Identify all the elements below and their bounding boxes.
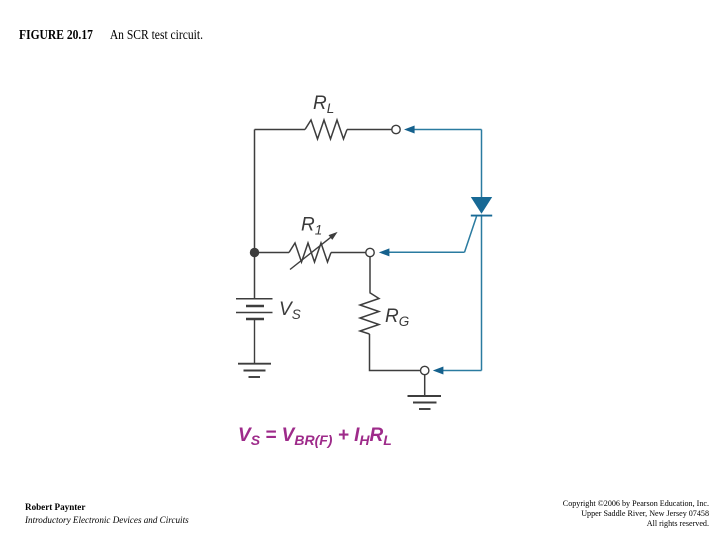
wire: teal probe lead, top horizontal xyxy=(413,129,482,131)
figure caption xyxy=(19,28,203,44)
wire: teal anode lead vertical xyxy=(481,130,483,198)
wire: battery to ground xyxy=(254,320,256,363)
arrow of variable resistor R1 xyxy=(290,232,338,270)
wire: teal cathode lead vertical xyxy=(481,215,483,371)
node A junction dot xyxy=(250,248,259,257)
terminal: gate probe (open circle, middle) xyxy=(366,248,374,256)
probe arrowhead at anode terminal xyxy=(404,126,415,134)
svg-text:RL: RL xyxy=(313,93,334,116)
svg-text:R1: R1 xyxy=(301,215,322,238)
SCR cathode bar xyxy=(471,215,492,217)
svg-text:VS: VS xyxy=(279,299,301,322)
wire: R1 to gate terminal xyxy=(331,252,366,254)
footer left: author xyxy=(25,501,189,527)
probe arrowhead at cathode terminal xyxy=(433,367,444,375)
probe arrowhead at gate terminal xyxy=(379,248,390,256)
wire: RG down to bottom rail xyxy=(370,334,421,371)
wire: teal bottom horizontal to cathode probe xyxy=(442,370,482,372)
wire: cathode terminal to ground xyxy=(424,375,426,396)
equation VS = VBR(F) + IH RL xyxy=(238,425,392,447)
resistor RG xyxy=(360,293,379,335)
wire: left rail vertical xyxy=(254,130,256,299)
SCR anode triangle xyxy=(471,197,492,214)
ground (left, below VS) xyxy=(238,364,271,377)
wire: gate terminal down to RG xyxy=(369,257,371,293)
svg-text:RG: RG xyxy=(385,306,409,329)
wire: top rail left segment xyxy=(255,129,306,131)
terminal: anode probe (open circle, top) xyxy=(392,125,400,133)
wire: RL to anode terminal xyxy=(347,129,392,131)
battery VS xyxy=(236,299,273,319)
wire: middle from node A to R1 xyxy=(255,252,290,254)
resistor R1 (variable) xyxy=(289,243,331,262)
terminal: cathode probe (open circle, bottom) xyxy=(421,366,429,374)
wire: teal gate lead horizontal xyxy=(389,251,465,253)
wire: SCR gate diagonal xyxy=(465,217,477,253)
footer right: copyright xyxy=(563,499,709,530)
resistor RL xyxy=(305,120,347,139)
ground (right, below cathode terminal) xyxy=(408,396,442,409)
